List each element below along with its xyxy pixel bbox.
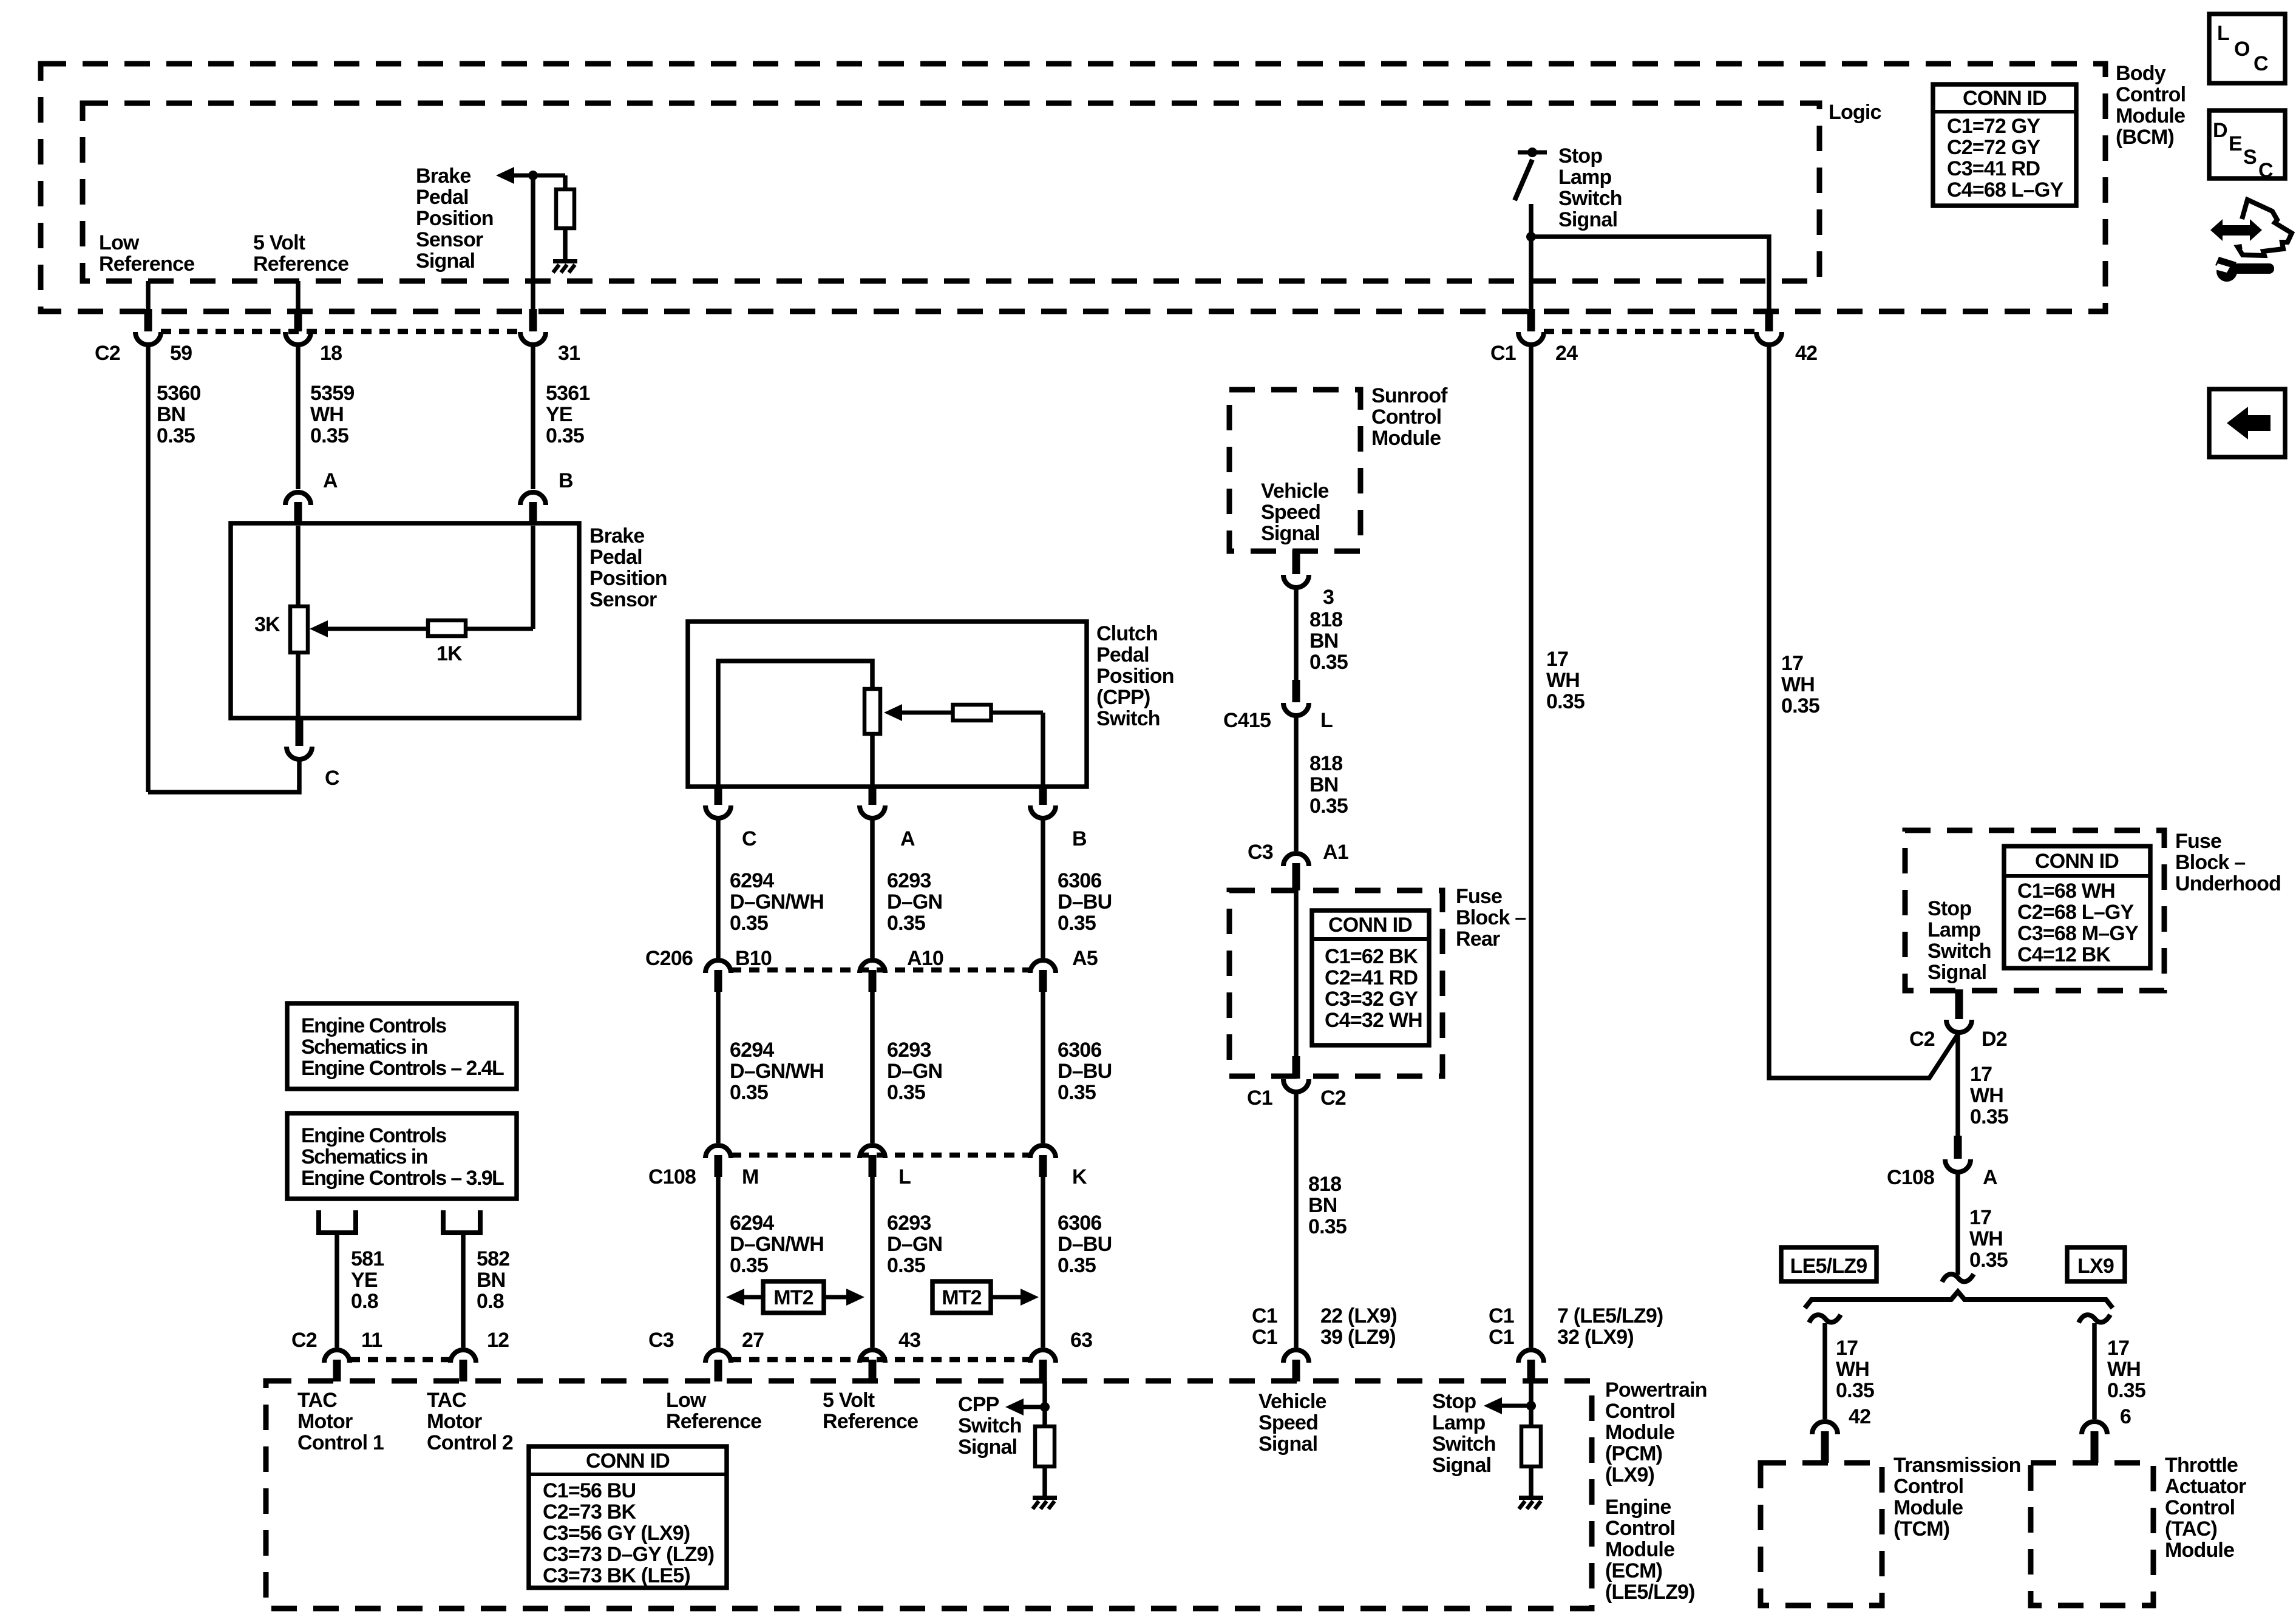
label wire 17 WH 0.35 (TCM branch) [1836, 1337, 1874, 1402]
wire 17 WH to splice brace [1955, 1174, 1960, 1275]
svg-text:A: A [900, 827, 915, 850]
svg-text:42: 42 [1795, 342, 1817, 365]
svg-text:D–BU: D–BU [1058, 1233, 1112, 1256]
label 5 Volt Reference (PCM) [823, 1389, 918, 1433]
connector C3 pin A1 (fuse block rear) [1283, 853, 1309, 890]
label Throttle Actuator Control (TAC) Module [2165, 1454, 2246, 1562]
potentiometer CPP switch [864, 689, 880, 734]
wire pin A into potentiometer [296, 526, 301, 608]
svg-text:17: 17 [2107, 1337, 2129, 1360]
label C3 (fuse block rear) [1248, 841, 1273, 864]
switch Stop Lamp Switch Signal (BCM logic) [1515, 147, 1547, 200]
svg-text:Motor: Motor [427, 1410, 482, 1433]
label C206 [645, 947, 693, 970]
connector CPP pin B [1030, 785, 1056, 818]
label wire 6293 D-GN 0.35 (lower) [887, 1212, 942, 1277]
svg-text:CONN ID: CONN ID [1328, 914, 1412, 937]
svg-text:Position: Position [589, 567, 667, 590]
svg-text:C1: C1 [1490, 342, 1516, 365]
svg-text:5359: 5359 [310, 382, 354, 405]
svg-text:(ECM): (ECM) [1605, 1559, 1662, 1582]
label pin 42 (TCM) [1849, 1405, 1870, 1428]
label pin A (CPP) [900, 827, 915, 850]
svg-text:Position: Position [416, 207, 494, 230]
node junction stop lamp signal (PCM) [1526, 1401, 1536, 1411]
svg-text:Reference: Reference [666, 1410, 761, 1433]
label Body Control Module (BCM) [2116, 62, 2186, 149]
svg-text:12: 12 [487, 1329, 509, 1352]
svg-text:Lamp: Lamp [1432, 1411, 1486, 1434]
svg-text:6294: 6294 [730, 1212, 774, 1235]
label wire 6294 D-GN/WH 0.35 (middle) [730, 1039, 824, 1104]
svg-text:0.35: 0.35 [310, 424, 348, 447]
label wire 6306 D-BU 0.35 (middle) [1058, 1039, 1112, 1104]
table CONN ID (fuse block rear) [1312, 910, 1429, 1045]
svg-text:0.35: 0.35 [1781, 694, 1819, 717]
label pin 18 [320, 342, 342, 365]
wire 6306 middle segment [1041, 992, 1045, 1143]
label wire 818 BN 0.35 (2) [1309, 752, 1348, 818]
svg-text:Signal: Signal [1258, 1432, 1317, 1456]
label Sunroof Control Module [1371, 384, 1448, 450]
icon LOC button [2209, 14, 2285, 83]
svg-text:Sensor: Sensor [589, 588, 657, 611]
wire 17 WH below underhood fuse block [1955, 1034, 1960, 1147]
wire CPP signal to pulldown [1042, 1381, 1047, 1428]
svg-text:Low: Low [99, 231, 140, 254]
label C108 [648, 1165, 696, 1188]
svg-text:0.8: 0.8 [351, 1290, 378, 1313]
svg-text:Underhood: Underhood [2175, 872, 2281, 895]
wire resistor to ground [563, 228, 568, 259]
svg-text:17: 17 [1781, 652, 1803, 675]
label wire 582 BN 0.8 [477, 1247, 509, 1313]
reference box Engine Controls Schematics in Engine Controls - 2.4L [287, 1003, 517, 1089]
wire 5359 WH 5V reference [296, 347, 301, 489]
svg-text:5360: 5360 [157, 382, 200, 405]
svg-text:6306: 6306 [1058, 1212, 1101, 1235]
svg-text:TAC: TAC [297, 1389, 337, 1412]
svg-text:6: 6 [2120, 1405, 2131, 1428]
connector sunroof pin 3 [1283, 550, 1309, 588]
svg-text:C2: C2 [291, 1329, 317, 1352]
label wire 5361 YE 0.35 [546, 382, 589, 447]
svg-text:LX9: LX9 [2077, 1255, 2114, 1278]
svg-text:C: C [2258, 159, 2273, 182]
svg-text:Powertrain: Powertrain [1605, 1378, 1707, 1402]
svg-text:0.35: 0.35 [887, 1081, 925, 1104]
svg-text:Switch: Switch [1432, 1432, 1496, 1456]
svg-text:C2: C2 [1320, 1086, 1346, 1110]
label Brake Pedal Position Sensor [589, 524, 667, 611]
svg-text:Switch: Switch [1558, 187, 1622, 210]
svg-text:D2: D2 [1982, 1028, 2007, 1051]
wire BPP sensor signal down to BCM pin 31 [531, 175, 535, 311]
splice symbol MT2 (between 6294 and 6293) [726, 1281, 864, 1313]
svg-text:Brake: Brake [589, 524, 645, 547]
label pin B [559, 469, 573, 492]
svg-text:Pedal: Pedal [1096, 643, 1149, 666]
connector CPP pin A [860, 785, 885, 818]
svg-text:0.35: 0.35 [887, 912, 925, 935]
label pin C [325, 767, 339, 790]
svg-text:Schematics in: Schematics in [301, 1036, 427, 1059]
wire 17 WH stop lamp switch signal to PCM [1529, 347, 1533, 1347]
svg-text:Module: Module [1605, 1421, 1674, 1444]
arrow CPP switch signal [1005, 1398, 1045, 1415]
wire 6294 upper segment [716, 820, 721, 959]
svg-text:5 Volt: 5 Volt [253, 231, 305, 254]
svg-text:L: L [1320, 709, 1333, 732]
wire BPP signal pulldown branch [563, 175, 568, 191]
label pin A1 [1323, 841, 1348, 864]
svg-text:Engine Controls – 3.9L: Engine Controls – 3.9L [301, 1167, 504, 1190]
label wire 6293 D-GN 0.35 (upper) [887, 869, 942, 935]
wire 818 BN segment 2 [1294, 717, 1299, 851]
wire 582 BN [461, 1233, 466, 1347]
svg-text:B10: B10 [735, 947, 772, 970]
svg-text:3: 3 [1323, 586, 1334, 609]
label C415 [1223, 709, 1271, 732]
svg-text:Brake: Brake [416, 164, 471, 188]
label pin A10 [907, 947, 943, 970]
label Vehicle Speed Signal (PCM) [1258, 1390, 1326, 1456]
label wire 818 BN 0.35 (3) [1308, 1173, 1347, 1238]
node junction CPP signal [1040, 1402, 1050, 1412]
label wire 17 WH 0.35 (below D2) [1970, 1063, 2008, 1128]
wire through fuse block rear [1294, 890, 1299, 1059]
svg-text:6293: 6293 [887, 1212, 931, 1235]
label C3 (PCM connector) [648, 1329, 674, 1352]
wire 6306 upper segment [1041, 820, 1045, 959]
svg-text:5 Volt: 5 Volt [823, 1389, 875, 1412]
svg-text:0.35: 0.35 [730, 1254, 768, 1277]
svg-text:0.8: 0.8 [477, 1290, 504, 1313]
label wire 5359 WH 0.35 [310, 382, 354, 447]
label C108 (right) [1887, 1166, 1934, 1189]
svg-text:Throttle: Throttle [2165, 1454, 2238, 1477]
svg-text:0.35: 0.35 [730, 1081, 768, 1104]
svg-text:TAC: TAC [427, 1389, 466, 1412]
svg-text:C2=72 GY: C2=72 GY [1947, 136, 2040, 159]
svg-text:C2: C2 [95, 342, 120, 365]
svg-text:C3=68 M–GY: C3=68 M–GY [2017, 922, 2139, 945]
svg-text:C1=56 BU: C1=56 BU [543, 1479, 636, 1502]
svg-text:WH: WH [2107, 1358, 2141, 1381]
svg-text:WH: WH [1546, 669, 1580, 692]
svg-text:C4=68 L–GY: C4=68 L–GY [1947, 178, 2064, 202]
svg-text:Stop: Stop [1558, 144, 1602, 168]
wire Low Reference to pin 59 [146, 281, 151, 311]
resistor BCM internal pull-up on BPP signal [556, 189, 574, 228]
connector C108 pin L [860, 1145, 885, 1177]
connector CPP pin C [705, 785, 731, 818]
label wire 818 BN 0.35 (1) [1309, 608, 1348, 674]
wire dotted connector tie C206 [731, 968, 1030, 973]
connector C108 pin M [705, 1145, 731, 1177]
label C2 (underhood) [1909, 1028, 1935, 1051]
svg-text:C1: C1 [1252, 1304, 1277, 1327]
svg-text:Stop: Stop [1927, 897, 1971, 920]
wire dotted connector tie C108 [731, 1153, 1030, 1158]
svg-text:(BCM): (BCM) [2116, 126, 2174, 149]
connector C415 pin L [1283, 680, 1309, 716]
svg-text:39 (LZ9): 39 (LZ9) [1320, 1326, 1396, 1349]
svg-text:Sunroof: Sunroof [1371, 384, 1448, 407]
svg-text:Control: Control [1605, 1400, 1675, 1423]
svg-text:WH: WH [1970, 1084, 2003, 1107]
wire stop lamp resistor to ground [1529, 1466, 1533, 1496]
svg-text:M: M [742, 1165, 759, 1188]
svg-text:Reference: Reference [253, 253, 348, 276]
connector BCM C1 pin 42 [1756, 309, 1782, 345]
label wire 581 YE 0.8 [351, 1247, 384, 1313]
connector BCM C2 pin 31 [520, 309, 546, 345]
svg-text:C1=72 GY: C1=72 GY [1947, 115, 2040, 138]
label pin B (CPP) [1072, 827, 1087, 850]
wire 6293 upper segment [870, 820, 875, 959]
svg-text:Engine Controls: Engine Controls [301, 1124, 446, 1147]
svg-text:Body: Body [2116, 62, 2166, 85]
svg-text:582: 582 [477, 1247, 509, 1270]
svg-text:Signal: Signal [958, 1436, 1017, 1459]
svg-text:D–GN: D–GN [887, 890, 942, 914]
svg-text:0.35: 0.35 [1308, 1215, 1347, 1238]
svg-text:Pedal: Pedal [416, 186, 469, 209]
svg-text:WH: WH [1836, 1358, 1869, 1381]
label pin 11 [361, 1329, 382, 1352]
wire 17 WH TCM branch [1822, 1323, 1827, 1419]
label 5 Volt Reference (BCM) [253, 231, 348, 276]
svg-text:WH: WH [1781, 673, 1815, 696]
svg-text:Control: Control [2165, 1496, 2235, 1519]
svg-text:Control 1: Control 1 [297, 1431, 384, 1454]
svg-text:BN: BN [477, 1269, 506, 1292]
engine option tag LE5/LZ9 [1781, 1247, 1877, 1281]
svg-text:32 (LX9): 32 (LX9) [1557, 1326, 1634, 1349]
svg-text:MT2: MT2 [773, 1286, 813, 1309]
svg-text:Control: Control [1371, 405, 1441, 429]
svg-text:B: B [1072, 827, 1087, 850]
label Stop Lamp Switch Signal (BCM) [1558, 144, 1622, 231]
svg-text:Module: Module [2165, 1539, 2234, 1562]
label pin 6 (TAC) [2120, 1405, 2131, 1428]
svg-text:Module: Module [1894, 1496, 1963, 1519]
svg-text:5361: 5361 [546, 382, 589, 405]
svg-text:E: E [2229, 132, 2242, 155]
connector C108 pin K [1030, 1145, 1056, 1177]
svg-text:Vehicle: Vehicle [1261, 480, 1329, 503]
reference box Engine Controls Schematics in Engine Controls - 3.9L [287, 1113, 517, 1199]
table CONN ID (BCM): C1=72 GY, C2=72 GY, C3=41 RD, C4=68 L-GY [1933, 84, 2076, 206]
label TAC Motor Control 1 [297, 1389, 384, 1454]
label Stop Lamp Switch Signal (fuse underhood) [1927, 897, 1991, 984]
label wire 6294 D-GN/WH 0.35 (lower) [730, 1212, 824, 1277]
wire potentiometer to box bottom [296, 653, 301, 718]
label CPP Switch Signal (PCM) [958, 1393, 1022, 1459]
label Low Reference (PCM) [666, 1389, 761, 1433]
label C2 (PCM connector) [291, 1329, 317, 1352]
svg-text:Actuator: Actuator [2165, 1475, 2246, 1498]
label C2 (BCM connector) [95, 342, 120, 365]
connector C206 pin B10 [705, 960, 731, 992]
splice symbol MT2 (pointing to 6306) [932, 1281, 1039, 1313]
label pin C (CPP) [742, 827, 756, 850]
wire pin B into wiper network [531, 526, 535, 629]
svg-text:6306: 6306 [1058, 869, 1101, 892]
label wire 17 WH 0.35 (TAC branch) [2107, 1337, 2145, 1402]
module box Fuse Block - Rear, dashed outline [1229, 890, 1442, 1076]
wire 6294 lower segment [716, 1177, 721, 1347]
wire CPP wiper leg down [1041, 713, 1045, 787]
icon DESC button [2209, 110, 2285, 182]
svg-text:Block –: Block – [2175, 851, 2245, 874]
svg-text:D–BU: D–BU [1058, 890, 1112, 914]
svg-text:BN: BN [1308, 1194, 1337, 1217]
resistor PCM internal (CPP signal) [1035, 1426, 1055, 1466]
svg-text:0.35: 0.35 [730, 912, 768, 935]
label Fuse Block - Underhood [2175, 830, 2281, 895]
svg-text:17: 17 [1970, 1063, 1992, 1086]
svg-text:Switch: Switch [1927, 940, 1991, 963]
svg-text:C2=68 L–GY: C2=68 L–GY [2017, 901, 2135, 924]
logic box inside BCM, dashed outline [83, 103, 1819, 281]
splice squiggle TCM branch [1809, 1315, 1841, 1323]
label Transmission Control Module (TCM) [1894, 1454, 2021, 1541]
svg-text:Fuse: Fuse [2175, 830, 2221, 853]
svg-text:C3=56 GY (LX9): C3=56 GY (LX9) [543, 1522, 690, 1545]
node junction stop lamp signal branch [1526, 232, 1536, 242]
label Engine Controls Schematics in Engine Controls - 2.4L [301, 1014, 504, 1080]
label wire 5360 BN 0.35 [157, 382, 200, 447]
wire CPP pot to box bottom [870, 734, 875, 787]
label Low Reference (BCM) [99, 231, 194, 276]
svg-text:17: 17 [1546, 648, 1568, 671]
svg-text:C3: C3 [1248, 841, 1273, 864]
svg-text:Speed: Speed [1258, 1411, 1318, 1434]
svg-text:C108: C108 [1887, 1166, 1934, 1189]
label wire 17 WH 0.35 (stop lamp to PCM) [1546, 648, 1584, 713]
svg-text:Signal: Signal [1432, 1454, 1491, 1477]
icon connector test / wrench [2210, 200, 2292, 282]
svg-text:C: C [2254, 52, 2268, 75]
wire 5361 YE BPP signal [531, 347, 535, 489]
resistor CPP wiper series [953, 705, 991, 720]
label C1 C1 (PCM stop lamp pins) [1489, 1304, 1514, 1349]
svg-text:43: 43 [898, 1329, 920, 1352]
svg-text:C3=41 RD: C3=41 RD [1947, 157, 2040, 180]
svg-text:Transmission: Transmission [1894, 1454, 2021, 1477]
svg-text:C2=73 BK: C2=73 BK [543, 1500, 637, 1524]
svg-text:A1: A1 [1323, 841, 1348, 864]
label D2 (underhood) [1982, 1028, 2007, 1051]
svg-text:YE: YE [546, 403, 572, 426]
svg-text:L: L [898, 1165, 911, 1188]
label pin L [898, 1165, 911, 1188]
svg-text:0.35: 0.35 [1969, 1249, 2008, 1272]
svg-text:Sensor: Sensor [416, 228, 483, 251]
arrow stop lamp switch signal (PCM) [1484, 1397, 1531, 1414]
svg-text:818: 818 [1309, 752, 1342, 775]
svg-text:18: 18 [320, 342, 342, 365]
connector C2 pin 12 (PCM) [450, 1350, 476, 1381]
label C2 (fuse rear bottom) [1320, 1086, 1346, 1110]
wire 581 YE [335, 1233, 339, 1347]
label Brake Pedal Position Sensor Signal (BCM input) [416, 164, 494, 273]
label Engine Controls Schematics in Engine Controls - 3.9L [301, 1124, 504, 1190]
connector BCM C1 pin 24 [1518, 309, 1544, 345]
svg-text:CONN ID: CONN ID [2035, 850, 2119, 873]
module box Powertrain/Engine Control Module, dashed outline [266, 1381, 1592, 1609]
svg-text:D–GN: D–GN [887, 1060, 942, 1083]
svg-text:Module: Module [1371, 427, 1441, 450]
svg-text:D–GN/WH: D–GN/WH [730, 1060, 824, 1083]
connector PCM vehicle speed signal pin [1283, 1350, 1309, 1381]
svg-text:C3=32 GY: C3=32 GY [1325, 988, 1418, 1011]
svg-text:D–GN/WH: D–GN/WH [730, 1233, 824, 1256]
resistor PCM internal (stop lamp signal) [1521, 1426, 1541, 1466]
svg-text:0.35: 0.35 [157, 424, 195, 447]
wire 6294 middle segment [716, 992, 721, 1143]
svg-text:C: C [325, 767, 339, 790]
svg-text:581: 581 [351, 1247, 384, 1270]
svg-text:Engine Controls – 2.4L: Engine Controls – 2.4L [301, 1057, 504, 1080]
off-page connector staple (TAC motor control 1) [319, 1210, 356, 1233]
svg-text:K: K [1072, 1165, 1087, 1188]
svg-text:Control: Control [1605, 1517, 1675, 1540]
svg-text:CPP: CPP [958, 1393, 999, 1416]
svg-text:C1: C1 [1489, 1304, 1514, 1327]
svg-text:Stop: Stop [1432, 1390, 1476, 1413]
label Stop Lamp Switch Signal (PCM) [1432, 1390, 1496, 1477]
svg-text:D–BU: D–BU [1058, 1060, 1112, 1083]
wire 5360 BN low reference [146, 347, 151, 792]
splice squiggle TAC branch [2079, 1315, 2110, 1323]
svg-text:C2=41 RD: C2=41 RD [1325, 966, 1418, 989]
svg-text:(TAC): (TAC) [2165, 1517, 2217, 1541]
svg-text:63: 63 [1070, 1329, 1092, 1352]
ground PCM internal (stop lamp signal) [1519, 1496, 1543, 1509]
svg-text:Control: Control [1894, 1475, 1963, 1498]
svg-text:31: 31 [558, 342, 580, 365]
label pin 59 [170, 342, 192, 365]
label Clutch Pedal Position (CPP) Switch [1096, 622, 1174, 730]
svg-text:Engine: Engine [1605, 1496, 1671, 1519]
svg-text:Switch: Switch [1096, 707, 1160, 730]
wire 6293 middle segment [870, 992, 875, 1143]
label Fuse Block - Rear [1456, 885, 1526, 951]
connector C206 pin A10 [860, 960, 885, 992]
label pin 12 [487, 1329, 509, 1352]
svg-text:6306: 6306 [1058, 1039, 1101, 1062]
svg-text:Block –: Block – [1456, 906, 1526, 929]
label Vehicle Speed Signal (sunroof) [1261, 480, 1329, 545]
wire dotted connector tie C3 [731, 1357, 1030, 1363]
svg-text:CONN ID: CONN ID [1963, 87, 2046, 110]
wire stop lamp signal to pulldown [1529, 1381, 1533, 1428]
label pin 27 [742, 1329, 764, 1352]
module box Fuse Block - Underhood, dashed outline [1905, 830, 2164, 991]
wire 17 WH TAC branch [2092, 1323, 2097, 1419]
connector BCM C2 pin 18 [285, 309, 311, 345]
svg-text:59: 59 [170, 342, 192, 365]
svg-text:6293: 6293 [887, 1039, 931, 1062]
wire dotted connector tie C1 row [1544, 329, 1756, 334]
svg-text:Logic: Logic [1829, 101, 1881, 124]
svg-text:Rear: Rear [1456, 927, 1500, 951]
svg-text:6294: 6294 [730, 1039, 774, 1062]
svg-text:C4=12 BK: C4=12 BK [2017, 943, 2111, 966]
